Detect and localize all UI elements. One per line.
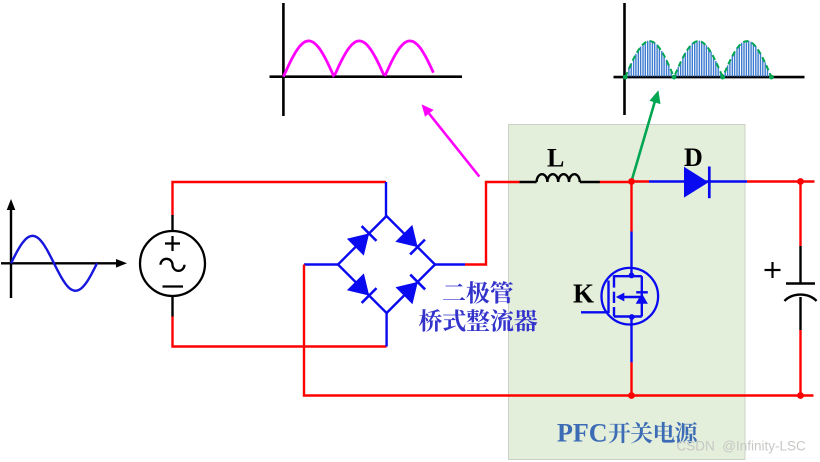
wire: diode D to right rail (red) — [747, 180, 815, 182]
svg-text:K: K — [573, 278, 594, 308]
wire: bridge left lead (blue) — [304, 263, 339, 265]
wire: bridge DC+ up to inductor (red) — [465, 182, 520, 265]
svg-text:CSDN @Infinity-LSC: CSDN @Infinity-LSC — [677, 439, 806, 454]
bridge diode D4 (bottom-right arm) — [395, 273, 426, 304]
capacitor + label — [765, 262, 781, 278]
node: top right rail junction — [797, 178, 804, 185]
wire: inductor to node (red) — [600, 181, 632, 183]
wire: right rail down to capacitor — [799, 182, 801, 247]
svg-text:D: D — [684, 143, 703, 172]
label: bridge rectifier text line 1 — [443, 281, 513, 304]
AC source leads (black) — [171, 215, 173, 231]
wire: bridge right lead (blue) — [435, 263, 465, 265]
PFC region box — [509, 125, 746, 460]
node: MOSFET source rail junction — [628, 392, 635, 399]
wire: bridge left to bottom rail (red) — [304, 265, 632, 396]
wire: bridge bottom lead (blue) — [385, 312, 387, 347]
bridge rectifier diamond wires — [338, 216, 435, 313]
AC source V1 — [140, 231, 205, 296]
input sine waveform — [11, 236, 97, 291]
MOSFET K body circle — [602, 268, 659, 325]
input sine graph axes — [1, 199, 127, 298]
bridge diode D1 (left-top arm) — [347, 225, 378, 256]
chopped current green dashed envelope — [625, 41, 771, 77]
bridge diode D2 (top-right arm) — [395, 225, 426, 256]
wire: MOSFET source down to rail — [630, 317, 632, 363]
wire: drain node down to MOSFET — [630, 182, 632, 232]
svg-text:L: L — [547, 143, 564, 172]
arrow to chopped waveform — [631, 90, 660, 181]
wire: bridge top lead (blue) — [385, 182, 387, 217]
inductor L — [520, 174, 600, 182]
MOSFET K internals — [581, 275, 648, 316]
chopped-current graph axes — [614, 3, 805, 115]
wire: bottom rail right part — [632, 394, 814, 396]
rectified-wave graph axes — [270, 3, 463, 116]
wire: capacitor bottom to rail — [799, 297, 801, 330]
bridge diode D3 (left-bottom arm) — [347, 273, 378, 304]
capacitor C — [785, 284, 817, 302]
svg-text:PFC: PFC — [557, 418, 608, 447]
chopped current hatch lines — [627, 41, 770, 77]
wire: node to diode D (red then blue) — [632, 180, 650, 182]
rectified waveform (magenta humps) — [283, 41, 433, 77]
node: inductor/diode/MOSFET junction — [628, 178, 635, 185]
diode D — [684, 167, 709, 199]
label: bridge rectifier text line 2 — [419, 309, 537, 332]
wire: AC+ top to bridge — [173, 182, 387, 216]
wire: AC- bottom to bridge bottom — [173, 316, 387, 347]
arrow to rectified waveform — [422, 104, 480, 176]
node: bottom right rail junction — [797, 392, 804, 399]
